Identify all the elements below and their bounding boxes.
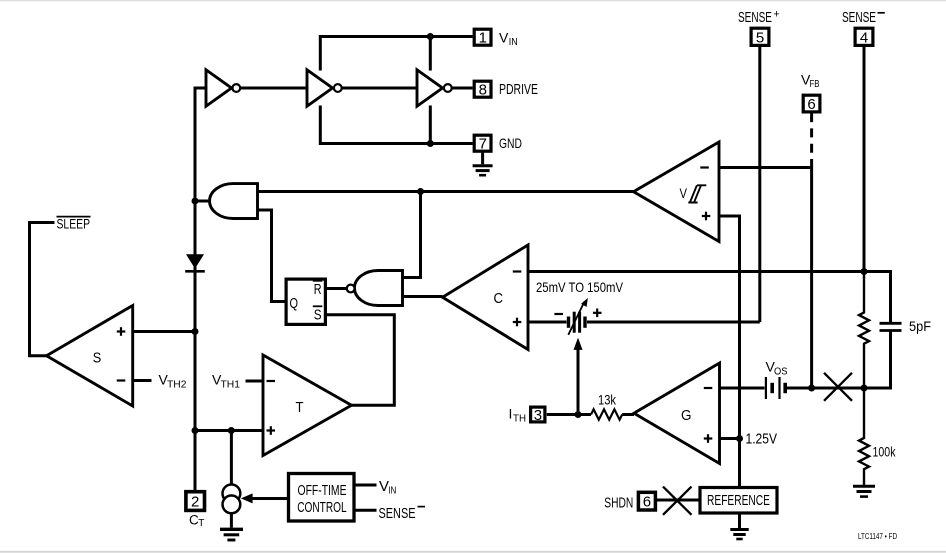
label battery minus <box>554 313 563 315</box>
comparator C <box>443 245 529 350</box>
ground below pin 7 <box>473 153 493 176</box>
wire SHDN to reference <box>656 499 701 502</box>
junction dot current source tap <box>228 427 235 434</box>
wire C minus input to sense network <box>528 272 891 324</box>
svg-text:5pF: 5pF <box>909 319 931 334</box>
pin 6 VFB <box>803 95 820 113</box>
wire battery plus to SENSE+ line <box>587 321 760 324</box>
svg-text:TH1: TH1 <box>221 380 241 391</box>
inverter U2 <box>307 70 342 106</box>
wire SENSE- vertical <box>863 47 866 272</box>
svg-text:T: T <box>198 518 204 529</box>
comparator V with hysteresis <box>634 142 720 242</box>
wire pin3 to 13k resistor <box>547 413 591 416</box>
svg-text:OS: OS <box>774 367 788 378</box>
junction dot S plus node <box>192 328 199 335</box>
wire off-time SENSE- stub <box>354 509 377 512</box>
pin 2 CT <box>186 492 205 511</box>
wire 13k to G amp <box>622 413 634 416</box>
junction dot RC bottom node <box>861 385 868 392</box>
wire SENSE+ vertical <box>758 47 761 322</box>
junction dot T plus at CT <box>192 427 199 434</box>
wire VFB dashed <box>810 113 813 167</box>
wire V comparator output to G1 input <box>258 190 634 193</box>
svg-text:2: 2 <box>191 494 199 511</box>
junction dot ITH node <box>575 411 582 418</box>
junction dot bottom rail <box>427 140 434 147</box>
svg-text:SENSE: SENSE <box>379 505 416 522</box>
ground below 100k <box>853 486 875 496</box>
offset battery 25mV-150mV <box>568 298 588 335</box>
wire VFB solid down to VOS node <box>810 168 813 389</box>
wire VOS battery to RC node <box>787 387 864 390</box>
wire G1 input 2 from flip-flop Q <box>258 210 285 302</box>
block REFERENCE <box>700 488 777 514</box>
label SLEEP <box>57 215 91 231</box>
svg-text:1: 1 <box>479 30 487 47</box>
svg-text:TH: TH <box>513 414 526 425</box>
svg-text:3: 3 <box>534 407 542 424</box>
ground below reference <box>730 513 748 539</box>
flip-flop Q <box>286 279 325 324</box>
svg-text:SHDN: SHDN <box>604 494 633 511</box>
pin 4 SENSE- <box>855 28 873 46</box>
label VOS <box>766 359 788 378</box>
svg-text:5: 5 <box>756 29 764 46</box>
wire V plus down to reference node <box>719 216 740 488</box>
block OFF-TIME CONTROL <box>289 474 355 522</box>
pin 1 VIN <box>474 29 491 47</box>
svg-text:I: I <box>509 406 513 422</box>
AND gate G1 (left-facing) <box>210 184 258 219</box>
label VTH2 <box>159 372 187 391</box>
svg-text:V: V <box>680 186 688 201</box>
battery VOS <box>766 377 785 399</box>
wire C plus input to offset battery <box>528 321 567 324</box>
capacitor 5pF <box>864 323 902 388</box>
wire T plus to CT node <box>195 429 263 432</box>
svg-text:T: T <box>296 399 304 416</box>
diode D1 <box>185 254 205 271</box>
wire top rail to VIN pin <box>320 37 472 71</box>
wire U2 to U3 <box>342 87 417 90</box>
svg-text:SLEEP: SLEEP <box>57 215 91 231</box>
label VTH1 <box>212 372 240 391</box>
wire G2 input from V line <box>403 192 421 278</box>
svg-text:+: + <box>773 9 779 21</box>
svg-text:CONTROL: CONTROL <box>297 500 347 516</box>
current source I1 <box>223 485 241 514</box>
wire off-time VIN stub <box>354 484 377 487</box>
pin 6 SHDN <box>638 492 655 510</box>
arrow from ITH node up to battery <box>574 338 583 415</box>
amplifier G <box>634 363 720 464</box>
label VIN <box>499 29 518 48</box>
svg-text:SENSE: SENSE <box>738 10 772 26</box>
svg-text:8: 8 <box>479 82 487 99</box>
svg-text:LTC1147 • FD: LTC1147 • FD <box>858 532 897 541</box>
svg-text:PDRIVE: PDRIVE <box>499 82 538 98</box>
wire Rbar to NAND bubble <box>327 287 347 290</box>
wire bottom rail to GND pin <box>320 106 472 144</box>
svg-text:REFERENCE: REFERENCE <box>707 492 770 509</box>
wire G1 output stub <box>195 200 210 203</box>
inverter U1 <box>206 70 240 106</box>
comparator S <box>47 306 133 407</box>
svg-text:6: 6 <box>643 494 651 511</box>
wire Sbar to T output <box>327 315 394 406</box>
junction dot NAND tap <box>417 188 424 195</box>
junction dot VFB-VOS node <box>808 385 815 392</box>
label battery plus <box>593 309 602 318</box>
pin 3 ITH <box>531 407 545 424</box>
junction dot top rail <box>427 33 434 40</box>
label CT <box>189 513 204 530</box>
bottom border rule <box>0 551 946 553</box>
wire CT node vertical (net CT) <box>195 88 206 491</box>
svg-text:R: R <box>314 281 322 298</box>
label SENSE+ <box>738 9 780 26</box>
ground below current source <box>220 513 243 540</box>
pin 7 GND <box>474 135 491 153</box>
wire V minus to VFB <box>719 166 812 169</box>
svg-text:V: V <box>499 29 509 45</box>
wire G minus to VOS battery <box>720 387 765 390</box>
svg-text:7: 7 <box>479 136 487 153</box>
wire T minus stub <box>246 380 264 383</box>
svg-text:TH2: TH2 <box>167 380 187 391</box>
NAND gate G2 (left-facing with bubble) <box>347 271 403 306</box>
label VFB <box>801 72 820 91</box>
comparator T <box>263 355 352 456</box>
arrow off-time control to current source <box>241 493 289 503</box>
svg-text:G: G <box>681 407 692 424</box>
svg-text:OFF-TIME: OFF-TIME <box>298 483 347 499</box>
X mark on VOS wire <box>824 373 852 401</box>
wire S minus stub <box>133 379 152 382</box>
svg-text:S: S <box>314 307 322 324</box>
junction dot G1 output node <box>192 198 199 205</box>
wire G plus to 1.25V node <box>720 437 740 440</box>
svg-text:GND: GND <box>499 135 522 151</box>
junction dot 1.25V node <box>736 435 743 442</box>
svg-text:IN: IN <box>388 485 396 497</box>
svg-text:25mV TO 150mV: 25mV TO 150mV <box>536 279 624 295</box>
wire G2 input from C output <box>403 295 443 298</box>
junction dot sense minus node <box>861 268 868 275</box>
label SENSE- <box>842 10 885 26</box>
svg-text:4: 4 <box>860 29 868 46</box>
label VIN (off-time) <box>379 478 396 497</box>
svg-text:IN: IN <box>509 36 518 48</box>
resistor 13k <box>591 409 622 419</box>
svg-text:S: S <box>93 350 102 367</box>
pin 5 SENSE+ <box>751 28 769 46</box>
svg-text:100k: 100k <box>873 445 896 460</box>
resistor unlabeled (parallel with 5pF) <box>859 272 869 389</box>
svg-text:6: 6 <box>807 96 815 113</box>
svg-text:SENSE: SENSE <box>842 10 876 26</box>
inverter U3 <box>417 70 452 106</box>
svg-text:FB: FB <box>810 79 820 90</box>
wire current source drop <box>230 431 233 486</box>
resistor 100k <box>859 388 869 485</box>
label ITH <box>509 406 527 425</box>
svg-text:C: C <box>494 290 504 307</box>
svg-text:13k: 13k <box>598 393 616 408</box>
wire U3 to PDRIVE pin <box>452 87 472 90</box>
wire S output to SLEEP <box>30 223 55 356</box>
wire U1 to U2 <box>241 87 307 90</box>
pin 8 PDRIVE <box>474 81 491 99</box>
label SENSE- (off-time) <box>379 505 426 522</box>
X mark on SHDN wire <box>663 487 692 515</box>
wire S plus to CT node <box>133 330 195 333</box>
svg-text:Q: Q <box>290 295 299 312</box>
top border rule <box>0 0 946 1</box>
svg-text:1.25V: 1.25V <box>746 432 778 448</box>
